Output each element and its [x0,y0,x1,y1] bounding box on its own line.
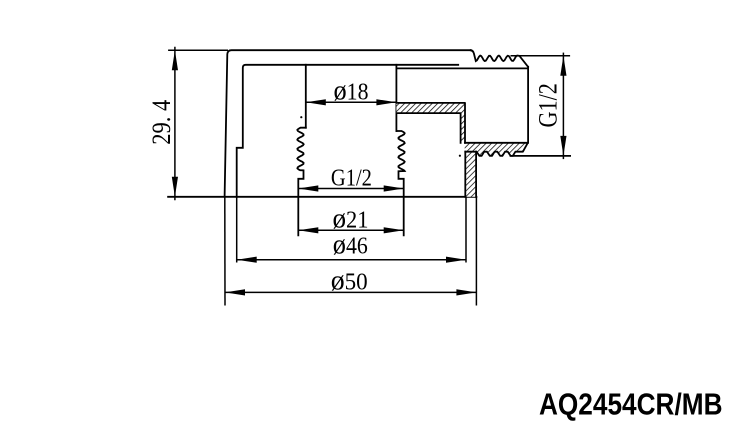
hatched section: right wall upper strip [461,104,465,143]
section outlines: ceiling band [396,103,465,143]
o46 left extension below base [236,197,238,263]
svg-text:ø18: ø18 [334,75,369,107]
dim 29.4 line [174,47,176,200]
dim line o46 [237,259,466,261]
arrows [172,50,567,295]
dim line o18 [306,101,397,103]
outlet bottom crest line (G1/2 lower extension) [511,155,571,157]
hatched section: right wall lower band [465,152,476,197]
dim line o50 [225,291,476,293]
section outlines: outlet band top, chamfer, teeth [465,143,528,156]
o50 left extension [224,197,226,306]
svg-text:29. 4: 29. 4 [147,100,176,145]
dim line o21 [298,229,403,231]
male thread root line [396,67,527,69]
dim line G1/2 center [298,188,403,190]
body outer top line [225,50,471,197]
body inner ceiling line and left inner wall with step [237,65,459,197]
male outlet right edge [527,67,529,143]
svg-text:ø46: ø46 [333,229,368,261]
svg-text:G1/2: G1/2 [534,83,563,127]
dim 29.4 top extension line [168,49,228,51]
svg-text:ø50: ø50 [331,265,368,297]
o50 right extension [475,197,477,306]
internal thread right [396,131,404,235]
base ground line [168,196,476,198]
dim G1/2 right top extension [511,55,571,57]
bore left edge [305,65,307,128]
svg-text:G1/2: G1/2 [331,166,372,192]
dim G1/2 right line [562,53,564,160]
artifact dots [300,116,302,118]
section outlines: lower wall [465,152,476,197]
svg-text:AQ2454CR/MB: AQ2454CR/MB [539,387,723,422]
hatched section: cup ceiling band [396,103,527,197]
o46 right extension [465,197,467,263]
hatched section: outlet bottom band with thread teeth [465,143,528,156]
internal thread left [297,128,306,236]
male thread crest zigzag top [471,50,528,67]
bore right edge [395,65,397,131]
